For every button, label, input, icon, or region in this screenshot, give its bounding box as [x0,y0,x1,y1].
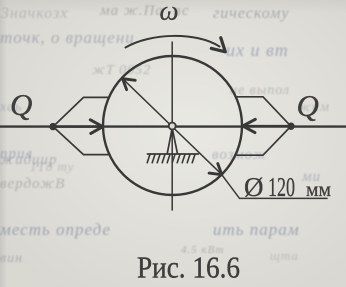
wire: leader line to dimension text [222,175,327,199]
svg-text:мм: мм [306,177,331,201]
support legs [167,130,172,154]
arrowhead down-right of diameter [209,164,222,175]
wire: left fork lower [54,127,111,155]
wire: vertical centerline [171,42,173,210]
svg-text:120: 120 [268,172,295,202]
svg-text:Ø: Ø [244,172,264,202]
wire: right fork lower [237,127,291,156]
disk circle [103,56,242,195]
arrowhead up-left of diameter [123,79,136,90]
svg-text:Рис. 16.6: Рис. 16.6 [137,250,240,285]
omega rotation arc [126,36,220,48]
faint bleed-through text rows [1,5,68,23]
ground hatch line [148,153,199,155]
node: right application point [287,123,294,130]
wire: left fork upper [54,97,109,126]
svg-text:Q: Q [297,88,319,123]
left force arrow Q [53,125,99,128]
pivot pin circle [169,123,176,130]
ground hatch ticks [147,154,195,163]
wire: right fork upper [236,97,291,126]
wire: diagonal diameter line [124,80,221,174]
wire: main horizontal force line [0,125,346,127]
node: left application point [49,123,56,130]
right force arrow Q [247,125,291,128]
svg-text:Q: Q [10,87,32,122]
svg-text:ω: ω [160,0,179,26]
